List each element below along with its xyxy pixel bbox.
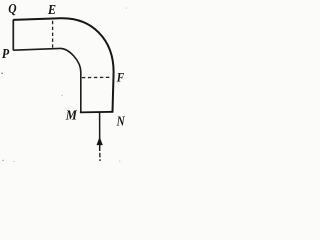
svg-text:P: P	[2, 45, 10, 61]
dashed section line below E	[52, 21, 54, 48]
flow arrow head (pointing up)	[97, 137, 103, 145]
svg-text:N: N	[116, 113, 126, 128]
tube end face P-Q (left wall)	[12, 20, 14, 51]
svg-text:F: F	[116, 70, 124, 85]
wire inner tube boundary: inner line, inner bend, inner wall	[13, 48, 80, 112]
tube opening M-N (bottom line)	[80, 111, 114, 114]
scan speckles	[1, 8, 127, 163]
svg-text:M: M	[65, 107, 78, 123]
svg-text:E: E	[47, 1, 56, 17]
svg-text:Q: Q	[8, 1, 16, 16]
flow arrow stem	[99, 112, 101, 151]
wire outer tube boundary: top line, outer bend, right wall	[13, 18, 113, 112]
dashed section line at F	[82, 76, 112, 78]
